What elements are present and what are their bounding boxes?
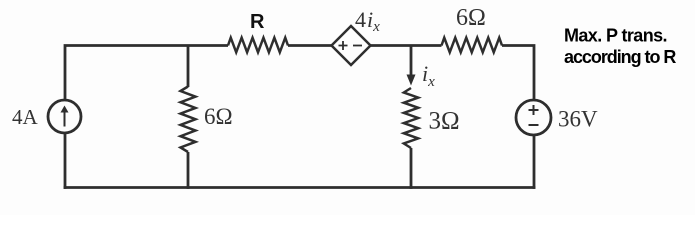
minus sign inside diamond bbox=[353, 45, 362, 47]
arrow inside current source bbox=[64, 109, 66, 127]
svg-text:6Ω: 6Ω bbox=[456, 5, 486, 31]
resistor R1 zigzag (R) bbox=[228, 38, 288, 53]
minus sign in voltage source bbox=[529, 124, 539, 126]
plus sign in voltage source bbox=[529, 105, 539, 115]
svg-text:4ix: 4ix bbox=[355, 7, 380, 35]
wire R to diamond bbox=[288, 44, 332, 47]
wire 6ohm to right corner bbox=[502, 46, 534, 101]
arrowhead ix bbox=[407, 75, 416, 86]
resistor R3 zigzag (6 ohm vertical) bbox=[181, 87, 196, 153]
current source I1 circle bbox=[48, 100, 81, 133]
wire bottom bbox=[64, 186, 536, 189]
svg-text:4A: 4A bbox=[12, 105, 39, 129]
dependent source U1 diamond bbox=[332, 26, 371, 65]
wire diamond to 6ohm top bbox=[371, 44, 442, 47]
svg-text:Max. P trans.: Max. P trans. bbox=[564, 26, 667, 46]
node junction 6ohm branch top bbox=[187, 46, 190, 88]
wire ix branch with current arrow bbox=[410, 46, 413, 81]
svg-text:36V: 36V bbox=[558, 107, 598, 132]
svg-text:3Ω: 3Ω bbox=[429, 108, 460, 135]
wire top left segment bbox=[65, 46, 228, 101]
wire left bottom bbox=[64, 133, 67, 189]
wire 3ohm to bottom bbox=[410, 148, 413, 189]
svg-text:6Ω: 6Ω bbox=[204, 104, 233, 129]
svg-text:according to R: according to R bbox=[564, 47, 676, 67]
wire 6ohm vertical to bottom bbox=[187, 152, 190, 189]
plus sign inside diamond bbox=[339, 41, 348, 50]
resistor R2 zigzag (6 ohm top) bbox=[442, 38, 503, 53]
wire right bottom bbox=[533, 135, 536, 189]
voltage source V1 circle bbox=[516, 100, 551, 135]
resistor R4 zigzag (3 ohm vertical) bbox=[404, 88, 418, 148]
svg-text:R: R bbox=[250, 11, 265, 33]
svg-text:ix: ix bbox=[422, 61, 435, 90]
